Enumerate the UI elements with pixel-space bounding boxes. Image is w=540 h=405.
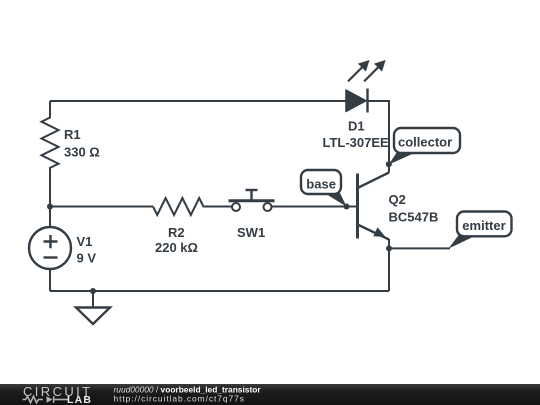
- svg-text:LTL-307EE: LTL-307EE: [323, 135, 390, 150]
- footer CircuitLab logo: [23, 384, 93, 405]
- svg-text:9 V: 9 V: [77, 251, 97, 266]
- svg-text:LAB: LAB: [67, 394, 92, 405]
- switch SW1: [229, 190, 275, 240]
- resistor R1: [42, 101, 100, 207]
- footer bar: [0, 384, 540, 405]
- svg-text:SW1: SW1: [237, 225, 265, 240]
- callout emitter: [449, 212, 512, 249]
- wire SW1 to Q2 base: [272, 206, 358, 208]
- footer credit text: [114, 385, 262, 404]
- svg-text:Q2: Q2: [389, 192, 406, 207]
- svg-text:V1: V1: [77, 234, 93, 249]
- ground: [76, 291, 110, 324]
- wire R2 to SW1: [203, 206, 232, 208]
- LED D1: [323, 60, 390, 150]
- svg-text:R2: R2: [168, 225, 185, 240]
- node mid junction: [47, 204, 53, 210]
- svg-text:330 Ω: 330 Ω: [64, 145, 100, 160]
- node base: [344, 204, 350, 210]
- svg-text:http://circuitlab.com/ct7q77s: http://circuitlab.com/ct7q77s: [114, 394, 245, 404]
- node ground junction: [90, 288, 96, 294]
- voltage source V1: [29, 207, 96, 292]
- resistor R2: [153, 198, 203, 255]
- wire top from R1 to D1 anode: [50, 100, 346, 102]
- node collector: [386, 161, 392, 167]
- svg-text:BC547B: BC547B: [389, 210, 439, 225]
- svg-text:D1: D1: [348, 119, 365, 134]
- wire emitter node to right: [389, 247, 450, 249]
- transistor Q2: [358, 173, 439, 240]
- callout base: [301, 170, 347, 207]
- svg-text:base: base: [306, 176, 336, 191]
- svg-text:collector: collector: [398, 135, 452, 150]
- svg-text:emitter: emitter: [462, 218, 505, 233]
- svg-text:R1: R1: [64, 127, 81, 142]
- wire D1 cathode to corner and down to Q2 collector: [368, 101, 389, 173]
- node emitter: [386, 245, 392, 251]
- svg-text:220 kΩ: 220 kΩ: [155, 240, 198, 255]
- wire mid node to R2: [50, 206, 153, 208]
- wire bottom rail: [50, 290, 389, 292]
- callout collector: [389, 128, 460, 165]
- wire Q2 emitter stub down: [388, 239, 390, 291]
